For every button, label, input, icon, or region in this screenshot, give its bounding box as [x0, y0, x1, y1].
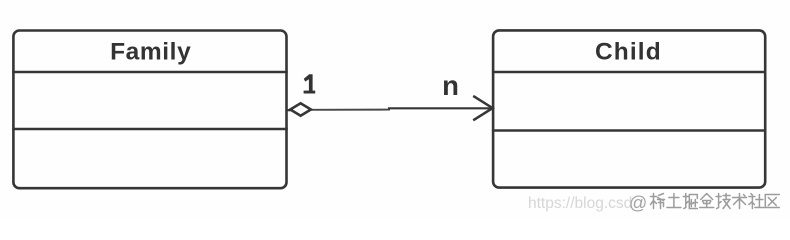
watermark CJK 稀土掘金技术社区 hand drawn: [651, 194, 780, 209]
class box Family: [12, 31, 288, 189]
aggregation diamond: [287, 103, 311, 115]
svg-text:Child: Child: [595, 39, 662, 66]
glyph tu 土: [667, 194, 681, 208]
multiplicity label 1: [304, 74, 316, 93]
svg-text:Family: Family: [110, 39, 191, 66]
svg-text:n: n: [442, 70, 459, 101]
svg-text:@: @: [629, 193, 647, 213]
arrowhead into Child: [473, 96, 492, 120]
wire association line: [310, 109, 390, 111]
glyph ji 技: [716, 194, 730, 209]
glyph jin 金: [700, 194, 714, 208]
glyph shu 术: [733, 194, 747, 209]
glyph qu 区: [765, 195, 779, 208]
glyph jue 掘: [683, 194, 697, 209]
glyph xi 稀: [651, 194, 665, 209]
svg-text:https://blog.csd: https://blog.csd: [528, 195, 632, 212]
glyph she 社: [749, 194, 764, 209]
class box Child: [492, 30, 767, 187]
